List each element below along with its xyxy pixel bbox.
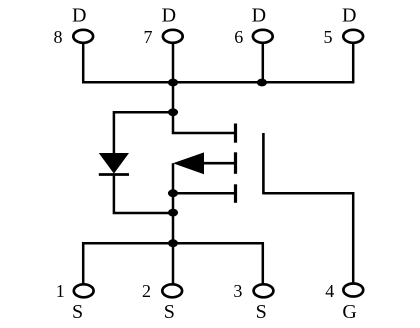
pin 2 pad [162, 284, 182, 297]
wire drain vertical to mosfet [173, 82, 234, 133]
wire diode cathode return [114, 176, 173, 213]
pin 8 pad [73, 30, 93, 43]
svg-text:S: S [72, 301, 83, 323]
pin 7 pad [163, 30, 183, 43]
mosfet body arrow [173, 152, 204, 174]
wire pin8 lead [82, 43, 85, 83]
body diode anode triangle [99, 153, 129, 174]
svg-text:D: D [342, 4, 356, 26]
wire gate to pin4 [263, 193, 353, 283]
svg-text:D: D [162, 4, 176, 26]
wire pin2 lead [172, 243, 175, 284]
wire source stub [173, 192, 234, 195]
pin 1 pad [74, 284, 94, 297]
wire body arrow to channel [203, 162, 234, 165]
wire diode anode branch [114, 112, 173, 153]
junction dot source stub [168, 189, 178, 197]
junction dot source bus [168, 239, 178, 247]
junction dot drain bus pin6 [257, 79, 267, 87]
svg-text:S: S [256, 301, 267, 323]
wire pin6 lead [262, 43, 265, 83]
svg-text:3: 3 [233, 281, 242, 301]
svg-text:D: D [72, 4, 86, 26]
svg-text:8: 8 [54, 27, 63, 47]
pin 3 pad [254, 284, 274, 297]
wire source vertical line [172, 163, 175, 243]
junction dot diode return [168, 209, 178, 217]
svg-text:G: G [342, 301, 356, 323]
wire top drain bus [82, 81, 354, 84]
junction dot drain bus pin7 [168, 79, 178, 87]
svg-text:D: D [252, 4, 266, 26]
svg-text:S: S [164, 301, 175, 323]
svg-text:4: 4 [325, 281, 334, 301]
svg-text:5: 5 [324, 27, 333, 47]
junction dot diode branch [168, 108, 178, 116]
svg-text:7: 7 [144, 27, 153, 47]
mosfet channel bar bottom (source) [234, 184, 237, 203]
svg-text:6: 6 [234, 27, 243, 47]
pin 4 pad [343, 284, 363, 297]
svg-text:1: 1 [56, 281, 65, 301]
wire pin1 lead [82, 242, 85, 284]
pin 6 pad [253, 30, 273, 43]
svg-text:2: 2 [142, 281, 151, 301]
wire pin7 lead [172, 43, 175, 83]
pin 5 pad [343, 30, 363, 43]
mosfet channel bar middle (body) [234, 152, 237, 174]
body diode cathode bar [99, 173, 129, 176]
wire bottom source bus [82, 242, 264, 245]
wire pin3 lead [262, 242, 265, 284]
mosfet gate electrode [262, 133, 265, 194]
wire pin5 lead [352, 43, 355, 83]
mosfet channel bar top (drain) [234, 124, 237, 143]
